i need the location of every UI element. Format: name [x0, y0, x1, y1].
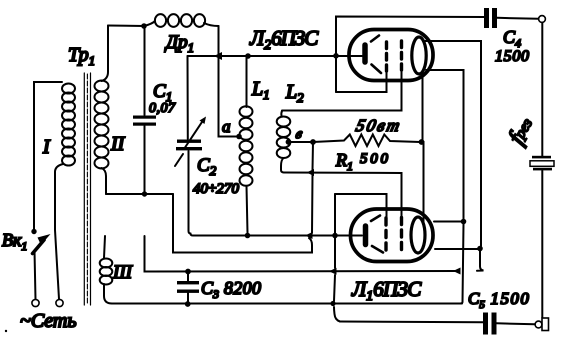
junction blob y303 x332 — [330, 301, 335, 306]
svg-text:Л26П3С: Л26П3С — [249, 26, 319, 53]
svg-text:III: III — [112, 262, 134, 283]
tube V1 anode — [411, 217, 425, 253]
tube V2 heater — [371, 36, 381, 74]
tube V1 envelope — [351, 209, 434, 262]
node L1 tap — [236, 134, 242, 140]
svg-text:I: I — [42, 136, 51, 158]
wire y303 — [112, 303, 462, 305]
node x480 y249 — [477, 246, 483, 252]
node y56 x248 — [245, 53, 251, 59]
wire x218 down to L1 tap — [219, 58, 237, 137]
junction arrow y271 x333 — [329, 268, 337, 275]
tube V1 wire right lower — [435, 248, 480, 250]
node at x144 y194 — [142, 191, 147, 196]
speck — [5, 330, 7, 332]
node C3 top — [185, 269, 191, 275]
wire winding II bottom to node — [106, 193, 173, 195]
svg-text:40÷270: 40÷270 — [193, 181, 240, 197]
winding I of Tr1 — [34, 82, 75, 299]
capacitor C3 — [177, 272, 261, 304]
wire L2 tap to R1 — [289, 141, 314, 143]
quartz crystal f_rez — [504, 113, 554, 170]
tube V2 grid1 lead down — [336, 71, 387, 92]
svg-text:С4: С4 — [503, 27, 521, 50]
svg-text:0,07: 0,07 — [149, 101, 176, 116]
capacitor C1 — [133, 26, 176, 194]
svg-text:R1: R1 — [335, 150, 353, 173]
terminal mains right — [56, 299, 63, 306]
resistor R1 — [313, 116, 420, 173]
svg-text:Тр1: Тр1 — [68, 44, 95, 68]
right vertical below crystal — [541, 171, 543, 318]
svg-text:а: а — [222, 117, 231, 136]
junction arrow y271 x456 — [453, 268, 461, 275]
node C3 bottom — [185, 301, 191, 307]
svg-text:L1: L1 — [251, 78, 270, 102]
variable capacitor C2 — [175, 56, 240, 234]
svg-text:II: II — [110, 133, 126, 155]
svg-text:1500: 1500 — [495, 48, 529, 65]
grid leak vertical x312 — [173, 142, 313, 253]
tube V1 grid 1 — [384, 218, 387, 250]
svg-text:С5 1500: С5 1500 — [468, 289, 529, 311]
right vertical to crystal — [541, 23, 543, 157]
node y235 x335 — [332, 233, 338, 239]
switch Vk1 — [2, 229, 51, 299]
node L2 tap on coil — [286, 139, 292, 145]
node y56 x336 — [333, 53, 339, 59]
tube V1 cathode — [363, 226, 369, 245]
coil L2 — [277, 81, 304, 173]
cathode wire y56 — [188, 55, 363, 57]
svg-text:L2: L2 — [285, 81, 304, 105]
node tap v — [310, 139, 316, 145]
svg-text:Вк1: Вк1 — [2, 230, 27, 253]
wire L2 bottom to grid2 of V1 — [284, 173, 402, 219]
tube V1 heater — [371, 216, 383, 253]
vertical x335 — [334, 194, 340, 322]
tube V1 label — [351, 277, 422, 304]
svg-text:в: в — [294, 126, 304, 142]
tube V2 wire right lower — [426, 70, 464, 219]
transformer Tr1 label — [68, 44, 95, 68]
tube V1 wire right upper — [434, 221, 464, 223]
choke Dr1 — [144, 14, 219, 55]
winding II of Tr1 — [95, 26, 126, 195]
wire y271 — [145, 236, 459, 272]
terminal mains left — [32, 299, 39, 306]
tube V2 anode — [412, 37, 426, 74]
node x463 y221 — [461, 219, 467, 225]
core of Tr1 — [84, 73, 90, 305]
capacitor C4 — [484, 8, 538, 65]
tube V2 grid 1 — [385, 42, 388, 71]
vertical x463 down — [460, 224, 464, 304]
bottom wire y322 — [340, 321, 483, 324]
junction R1 to anode line — [419, 139, 425, 145]
tube V2 cathode — [362, 45, 368, 62]
coil L1 — [240, 56, 270, 233]
label a — [222, 117, 231, 136]
tube V2 anode lead down — [423, 74, 424, 226]
tube V2 label — [249, 26, 319, 53]
node y235 x247 — [245, 233, 251, 239]
wire choke down to grid wire — [218, 26, 220, 54]
cathode wire V1 y235 — [191, 234, 363, 236]
winding III of Tr1 — [100, 236, 134, 304]
node top rail x144 — [141, 23, 147, 29]
svg-text:Л16П3С: Л16П3С — [351, 277, 422, 304]
wire top rail from II to choke — [108, 25, 144, 28]
terminal output top — [539, 16, 546, 23]
junction arrow x310 y172 — [307, 169, 315, 176]
svg-text:~Сеть: ~Сеть — [20, 310, 76, 332]
vertical x480 stub down — [477, 251, 484, 271]
junction arrow x309 y235 — [305, 232, 313, 239]
svg-text:С3 8200: С3 8200 — [201, 278, 261, 301]
tube V2 anode wire right upper — [425, 41, 481, 246]
tube V2 grid 2 — [400, 41, 403, 70]
tube V1 grid 2 — [400, 218, 403, 250]
svg-text:500: 500 — [360, 151, 389, 167]
junction arrow x218 y56 — [214, 52, 222, 60]
svg-text:fрез: fрез — [504, 113, 540, 149]
svg-text:50вт: 50вт — [354, 116, 402, 135]
wire grid1 V1 from y194 — [335, 194, 387, 219]
label v — [294, 126, 304, 142]
mains label — [20, 310, 76, 332]
capacitor C5 — [468, 289, 535, 335]
wire top feedback x336 — [336, 17, 484, 93]
tube V2 grid2 lead down — [282, 70, 402, 111]
terminal output bottom — [535, 318, 548, 331]
svg-text:Др1: Др1 — [164, 32, 194, 55]
tube V2 envelope — [349, 30, 433, 81]
svg-text:С2: С2 — [197, 155, 217, 178]
